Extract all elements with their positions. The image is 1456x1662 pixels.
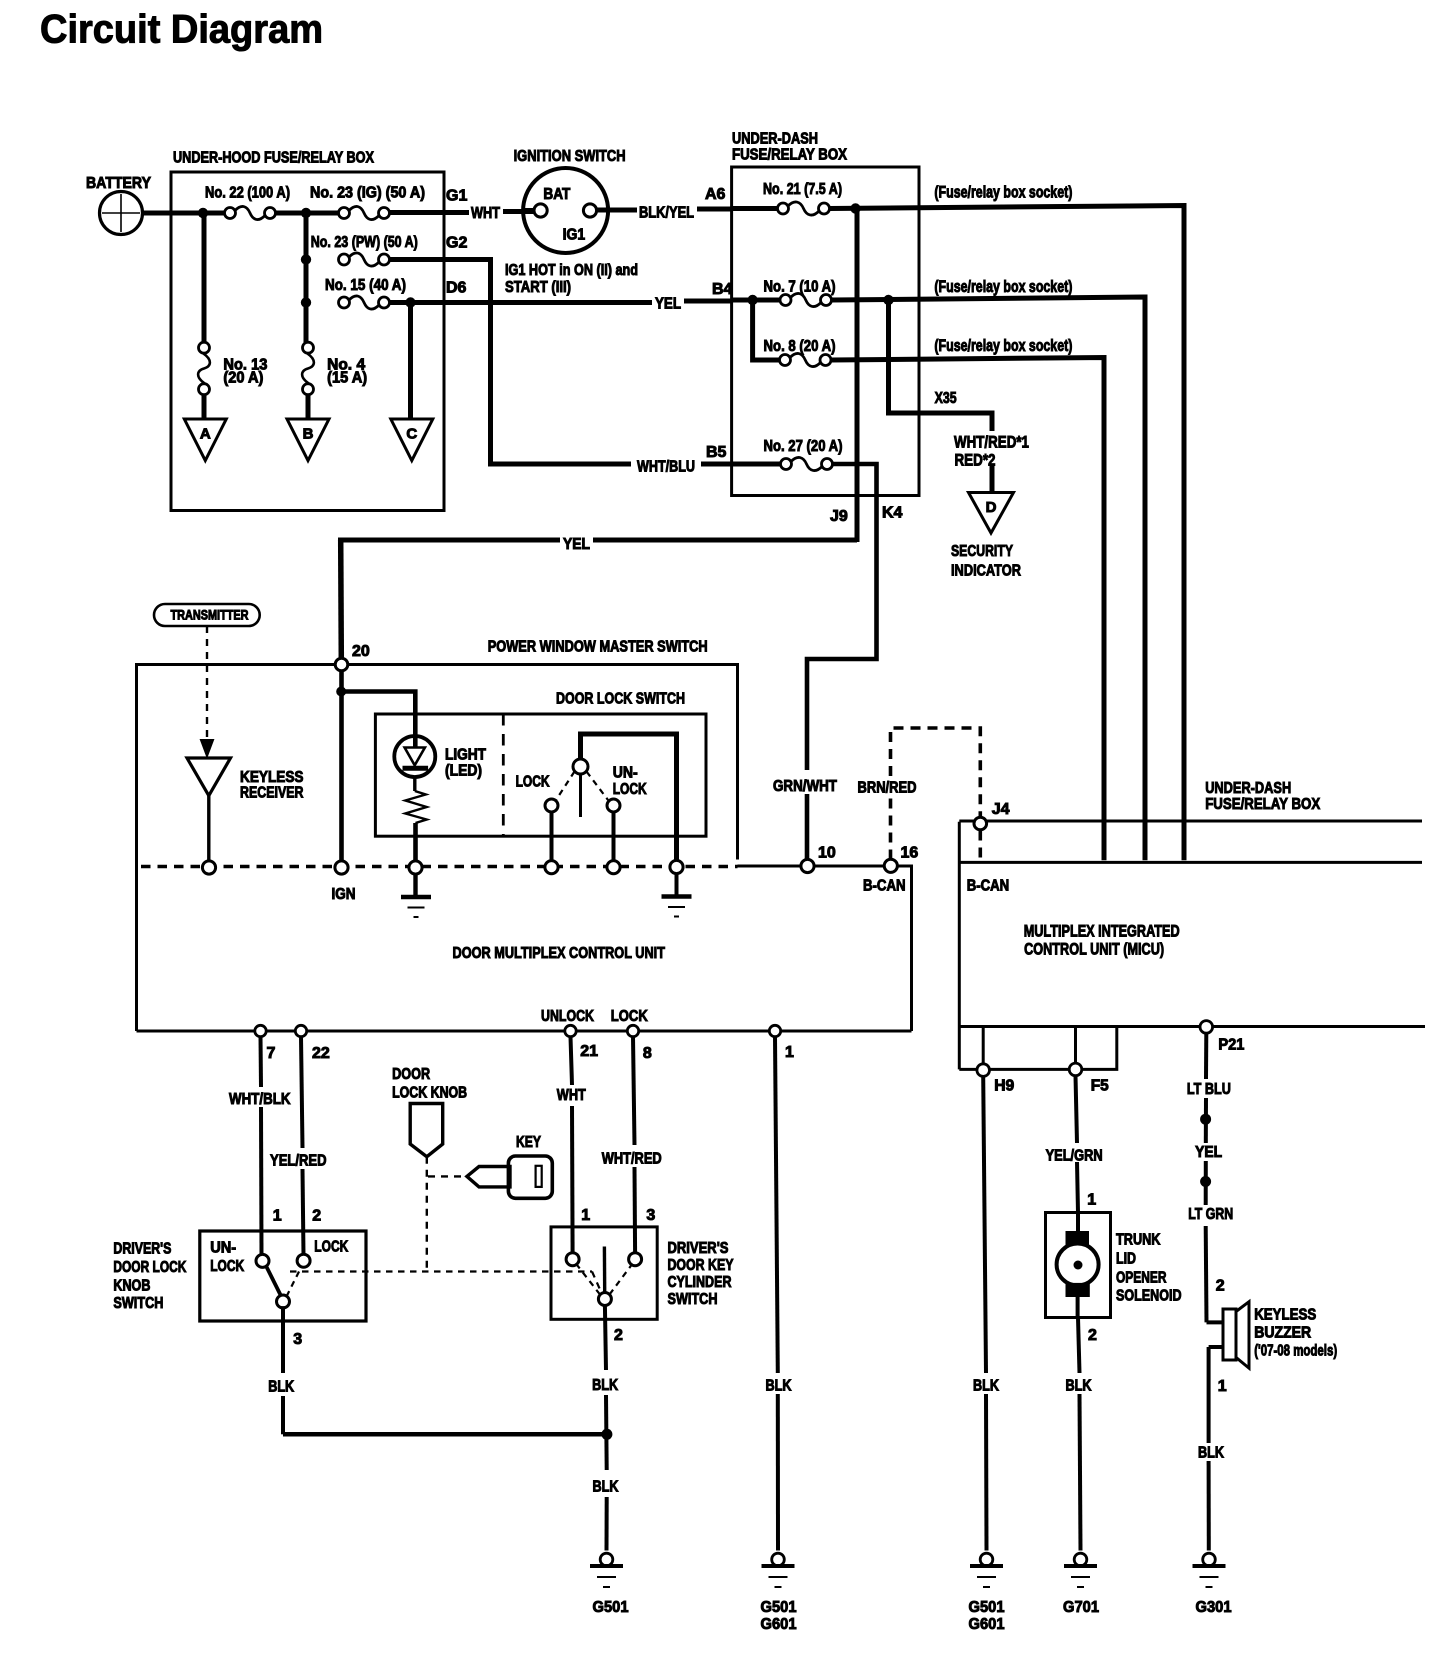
multiplex integrated control unit box: [959, 820, 1422, 823]
svg-text:2: 2: [1216, 1278, 1225, 1295]
svg-text:Circuit Diagram: Circuit Diagram: [40, 8, 323, 52]
trunk lid opener solenoid box: [1046, 1213, 1111, 1318]
svg-text:KNOB: KNOB: [113, 1278, 150, 1295]
terminal bus solid segment and right edge: [738, 866, 912, 1031]
svg-text:LOCK: LOCK: [611, 1008, 648, 1025]
ground G701: [1074, 1553, 1087, 1566]
light LED box: [375, 714, 706, 836]
svg-text:8: 8: [643, 1045, 652, 1062]
svg-text:BLK: BLK: [1066, 1378, 1093, 1395]
svg-text:GRN/WHT: GRN/WHT: [773, 778, 837, 795]
svg-text:YEL: YEL: [655, 296, 681, 313]
door lock switch arm: [579, 775, 582, 818]
node LED branch junction: [336, 687, 346, 697]
svg-text:YEL/RED: YEL/RED: [270, 1153, 327, 1170]
svg-text:No. 15 (40 A): No. 15 (40 A): [325, 277, 406, 294]
pin F5: [1069, 1063, 1082, 1076]
driver's door lock knob switch box: [200, 1231, 366, 1321]
pin IGN terminal: [335, 861, 348, 874]
svg-text:(20 A): (20 A): [223, 370, 263, 387]
under-hood fuse/relay box: [171, 172, 444, 511]
wire WHT from terminal 21: [571, 1037, 573, 1085]
svg-text:BLK/YEL: BLK/YEL: [639, 205, 694, 222]
wire B4 junction down to fuse No.8: [753, 300, 780, 360]
svg-text:LIGHT: LIGHT: [445, 747, 486, 764]
fuse No.23 (IG) (50A): [339, 208, 350, 219]
ground G501 key cylinder: [600, 1553, 613, 1566]
node battery bus junction: [198, 208, 208, 218]
wire B4 row: [732, 298, 780, 303]
svg-text:B-CAN: B-CAN: [967, 878, 1010, 895]
svg-text:BLK: BLK: [592, 1377, 619, 1394]
svg-text:WHT: WHT: [471, 205, 500, 222]
svg-text:B4: B4: [712, 281, 733, 298]
ground G501 G601 middle: [980, 1553, 993, 1566]
pin door lock switch ground terminal: [670, 860, 683, 873]
wire BLK from terminal 1 to ground: [775, 1037, 778, 1373]
node splice YEL: [1200, 1114, 1211, 1125]
wire transmitter dashed link: [206, 626, 208, 739]
node splice LT GRN: [1200, 1176, 1211, 1187]
svg-text:DOOR LOCK: DOOR LOCK: [113, 1259, 187, 1276]
pin LOCK bus terminal: [545, 861, 558, 874]
wire IGN riser: [339, 671, 344, 860]
svg-text:IG1 HOT in ON (II) and: IG1 HOT in ON (II) and: [505, 262, 638, 279]
svg-text:IG1: IG1: [563, 227, 586, 244]
svg-text:DOOR: DOOR: [392, 1066, 430, 1083]
svg-text:7: 7: [267, 1045, 276, 1062]
wire BLK from H9 to ground: [983, 1076, 986, 1373]
connector D: [969, 493, 1014, 534]
wire resistor to ground terminal: [413, 823, 418, 861]
svg-text:B-CAN: B-CAN: [863, 878, 906, 895]
fuse No.8 (20A): [780, 355, 791, 366]
svg-text:IGNITION SWITCH: IGNITION SWITCH: [514, 148, 626, 165]
svg-text:BLK: BLK: [1198, 1444, 1225, 1461]
svg-text:21: 21: [580, 1043, 598, 1060]
svg-text:YEL/GRN: YEL/GRN: [1046, 1148, 1103, 1165]
node A6 junction J9 feed: [850, 203, 860, 213]
svg-text:BUZZER: BUZZER: [1254, 1325, 1311, 1342]
wire fuse/relay box socket 3: [831, 358, 1104, 861]
svg-text:UNDER-HOOD FUSE/RELAY BOX: UNDER-HOOD FUSE/RELAY BOX: [173, 150, 374, 167]
node D6 junction: [301, 297, 311, 307]
wire LOCK contact to terminal: [550, 812, 554, 860]
wire into buzzer: [1207, 1320, 1224, 1324]
connector sub-box H9 F5: [959, 1027, 1117, 1070]
svg-text:CONTROL UNIT (MICU): CONTROL UNIT (MICU): [1024, 941, 1164, 959]
pin terminal 16: [884, 859, 897, 872]
svg-text:(Fuse/relay box socket): (Fuse/relay box socket): [934, 278, 1072, 296]
svg-text:22: 22: [312, 1045, 330, 1062]
svg-text:1: 1: [273, 1208, 282, 1225]
pin terminal 8: [627, 1025, 638, 1036]
fuse No.27 (20A): [781, 459, 792, 470]
pin BAT terminal: [534, 204, 547, 217]
svg-text:K4: K4: [882, 505, 903, 522]
door lock knob: [410, 1104, 443, 1157]
svg-text:DRIVER'S: DRIVER'S: [668, 1240, 729, 1257]
svg-text:UN-: UN-: [210, 1240, 236, 1257]
wire UN-LOCK contact to terminal: [612, 812, 616, 860]
wire ignition to under-dash A6, label BLK/YEL: [597, 208, 637, 213]
fuse No.22 (100A): [225, 208, 236, 219]
fuse No.4 (15A): [306, 340, 308, 345]
svg-text:G501: G501: [761, 1599, 797, 1616]
wire G1 out to ignition switch, label WHT: [390, 210, 470, 215]
connector B: [287, 419, 329, 461]
svg-text:LID: LID: [1116, 1251, 1136, 1268]
wire vertical bus to lower fuses: [304, 213, 309, 348]
svg-text:No. 21 (7.5 A): No. 21 (7.5 A): [763, 181, 842, 198]
svg-text:MULTIPLEX INTEGRATED: MULTIPLEX INTEGRATED: [1024, 923, 1180, 941]
svg-text:1: 1: [1087, 1192, 1096, 1209]
wire fuse/relay box socket 1: [830, 206, 1185, 861]
wire BLK horizontal to junction: [283, 1432, 605, 1437]
svg-text:BATTERY: BATTERY: [86, 175, 151, 192]
node BLK junction: [601, 1429, 612, 1440]
svg-text:10: 10: [818, 845, 836, 862]
svg-text:IGN: IGN: [332, 886, 356, 903]
svg-text:3: 3: [293, 1331, 302, 1348]
svg-text:G601: G601: [969, 1616, 1005, 1633]
svg-text:G701: G701: [1063, 1599, 1099, 1616]
connector C: [391, 419, 433, 461]
svg-text:D: D: [986, 499, 997, 516]
keyless buzzer: [1223, 1309, 1236, 1360]
wire LED branch: [341, 692, 415, 748]
svg-text:DOOR LOCK SWITCH: DOOR LOCK SWITCH: [556, 691, 685, 708]
wire J9 riser to YEL bus: [855, 209, 860, 543]
svg-text:LOCK: LOCK: [613, 781, 648, 798]
svg-text:2: 2: [614, 1327, 623, 1344]
node G1 feed junction: [301, 208, 311, 218]
svg-text:No. 23 (IG) (50 A): No. 23 (IG) (50 A): [310, 185, 425, 202]
wire YEL horizontal to terminal 20: [593, 538, 857, 543]
LED ground: [413, 874, 417, 896]
keyless receiver antenna: [187, 758, 231, 796]
wire to connector A: [202, 395, 207, 419]
wire fuse/relay box socket 2: [832, 297, 1146, 860]
svg-text:UNLOCK: UNLOCK: [541, 1008, 594, 1025]
svg-text:2: 2: [1088, 1327, 1097, 1344]
svg-text:('07-08 models): ('07-08 models): [1254, 1343, 1337, 1360]
pin 20 terminal: [335, 658, 348, 671]
svg-text:KEY: KEY: [516, 1134, 542, 1151]
svg-text:G1: G1: [446, 188, 467, 205]
svg-text:A6: A6: [705, 186, 726, 203]
wire fuse22 to junction: [276, 211, 345, 216]
key cylinder arm: [603, 1247, 607, 1293]
pin UN-LOCK contact: [607, 799, 620, 812]
svg-text:J9: J9: [830, 508, 848, 525]
pin key cylinder 3: [629, 1253, 642, 1266]
svg-text:1: 1: [785, 1044, 794, 1061]
pin knob switch 3 common: [277, 1295, 290, 1308]
svg-text:LOCK: LOCK: [210, 1258, 245, 1275]
svg-text:LOCK KNOB: LOCK KNOB: [392, 1085, 467, 1102]
pin J4: [974, 817, 987, 830]
node G2 junction: [301, 254, 311, 264]
svg-text:1: 1: [1218, 1378, 1227, 1395]
svg-text:B: B: [303, 426, 314, 443]
pin LOCK contact: [545, 799, 558, 812]
door multiplex control unit bottom edge: [137, 1030, 912, 1033]
svg-text:RED*2: RED*2: [955, 451, 996, 470]
received-signal arrowhead: [201, 740, 213, 756]
svg-text:CYLINDER: CYLINDER: [668, 1274, 732, 1291]
svg-text:DRIVER'S: DRIVER'S: [113, 1241, 171, 1258]
pin key cylinder 1: [566, 1253, 579, 1266]
svg-text:KEYLESS: KEYLESS: [240, 769, 304, 786]
driver's door key cylinder switch box: [551, 1227, 657, 1319]
fuse No.15 (40A): [339, 297, 350, 308]
svg-text:BRN/RED: BRN/RED: [858, 780, 917, 797]
pin terminal 1: [769, 1025, 780, 1036]
svg-text:No. 27 (20 A): No. 27 (20 A): [764, 438, 843, 455]
svg-text:D6: D6: [446, 280, 467, 297]
wire knob switch 3 to BLK junction: [281, 1306, 285, 1373]
pin terminal 10: [801, 859, 814, 872]
wire G2 out and down to WHT/BLU row: [390, 260, 632, 465]
wire LT BLU / YEL / LT GRN riser from P21: [1204, 1033, 1208, 1079]
svg-text:BLK: BLK: [973, 1378, 1000, 1395]
LED lamp: [394, 736, 435, 777]
wire YEL/GRN from F5 to solenoid: [1076, 1076, 1078, 1143]
door lock switch dashed throws: [556, 772, 575, 801]
svg-text:G501: G501: [593, 1599, 629, 1616]
knob switch arm: [266, 1266, 281, 1297]
key: [467, 1167, 510, 1187]
svg-text:WHT: WHT: [557, 1087, 586, 1104]
svg-text:No. 7 (10 A): No. 7 (10 A): [764, 279, 836, 296]
svg-text:WHT/BLK: WHT/BLK: [229, 1091, 291, 1108]
wire K4 riser: [807, 464, 877, 770]
wire B5 row WHT/BLU: [732, 462, 781, 467]
wire key cylinder 2 to ground: [605, 1305, 606, 1370]
knob switch dashed throw: [287, 1267, 302, 1297]
svg-text:UNDER-DASH: UNDER-DASH: [1205, 780, 1291, 797]
svg-text:(Fuse/relay box socket): (Fuse/relay box socket): [934, 337, 1072, 355]
pin LED ground terminal: [409, 861, 422, 874]
wire buzzer to ground G301: [1209, 1345, 1223, 1349]
svg-text:BLK: BLK: [766, 1378, 793, 1395]
ground G501 G601 left: [772, 1553, 785, 1566]
svg-text:(15 A): (15 A): [327, 370, 367, 387]
svg-text:LT BLU: LT BLU: [1187, 1081, 1231, 1098]
fuse No.23 (PW) (50A): [339, 254, 350, 265]
wire to connector C: [408, 303, 413, 420]
svg-text:FUSE/RELAY BOX: FUSE/RELAY BOX: [1205, 796, 1320, 813]
door lock switch common bar: [581, 734, 677, 860]
pin IG1 terminal: [583, 204, 596, 217]
svg-text:F5: F5: [1091, 1077, 1109, 1094]
pin terminal 7: [255, 1025, 266, 1036]
pin P21: [1200, 1021, 1213, 1034]
svg-text:POWER WINDOW MASTER SWITCH: POWER WINDOW MASTER SWITCH: [488, 639, 708, 656]
svg-text:OPENER: OPENER: [1116, 1270, 1167, 1287]
wire H9 stub: [982, 1027, 985, 1064]
wire WHT/BLK from terminal 7: [259, 1037, 264, 1087]
svg-text:X35: X35: [935, 390, 957, 407]
svg-text:3: 3: [646, 1207, 655, 1224]
svg-text:INDICATOR: INDICATOR: [951, 563, 1021, 580]
svg-text:G601: G601: [761, 1616, 797, 1633]
svg-text:YEL: YEL: [1195, 1144, 1222, 1161]
pin UN-LOCK bus terminal: [607, 861, 620, 874]
wire BRN/RED dashed: [889, 797, 893, 860]
wire F5 stub: [1074, 1027, 1077, 1063]
wire YEL/RED from terminal 22: [301, 1037, 303, 1148]
resistor: [413, 777, 416, 791]
svg-text:UNDER-DASH: UNDER-DASH: [732, 131, 818, 148]
svg-text:C: C: [406, 426, 417, 443]
svg-text:No. 8 (20 A): No. 8 (20 A): [764, 338, 836, 355]
svg-text:No. 23 (PW) (50 A): No. 23 (PW) (50 A): [311, 234, 418, 251]
svg-text:FUSE/RELAY BOX: FUSE/RELAY BOX: [732, 147, 847, 164]
svg-text:BLK: BLK: [268, 1379, 295, 1396]
wire key dashed link: [428, 1175, 463, 1177]
svg-text:G2: G2: [446, 235, 467, 252]
svg-text:RECEIVER: RECEIVER: [240, 785, 304, 802]
svg-text:WHT/BLU: WHT/BLU: [637, 459, 695, 476]
svg-text:UN-: UN-: [613, 765, 638, 782]
battery: [100, 192, 143, 235]
fuse No.13 (20A): [202, 213, 207, 342]
wire BLK solenoid to ground: [1078, 1318, 1080, 1374]
transmitter: [154, 604, 260, 626]
door lock switch divider dashed: [502, 714, 505, 837]
ground G301: [1203, 1553, 1216, 1566]
svg-text:1: 1: [581, 1207, 590, 1224]
svg-text:No. 22 (100 A): No. 22 (100 A): [205, 185, 290, 202]
svg-text:16: 16: [901, 845, 919, 862]
pin knob switch 1: [256, 1254, 269, 1267]
node triangle C junction: [405, 297, 415, 307]
wire to connector B: [306, 395, 311, 419]
svg-text:LT GRN: LT GRN: [1188, 1206, 1233, 1223]
svg-text:SECURITY: SECURITY: [951, 543, 1013, 560]
svg-text:H9: H9: [994, 1077, 1014, 1094]
pin key cylinder 2 common: [598, 1293, 611, 1306]
svg-text:2: 2: [312, 1208, 321, 1225]
svg-text:LOCK: LOCK: [314, 1239, 349, 1256]
wire D6 out to under-dash B4, label YEL: [390, 300, 653, 305]
svg-text:BLK: BLK: [593, 1479, 620, 1496]
door lock switch ground: [675, 874, 679, 896]
door lock switch common contact: [573, 759, 588, 774]
svg-text:SOLENOID: SOLENOID: [1116, 1288, 1182, 1305]
node K4/X35 feed junction: [883, 295, 893, 305]
svg-text:G501: G501: [969, 1599, 1005, 1616]
pin keyless receiver terminal: [202, 861, 215, 874]
svg-text:DOOR MULTIPLEX CONTROL UNIT: DOOR MULTIPLEX CONTROL UNIT: [453, 945, 666, 962]
wire knob dashed link: [426, 1157, 428, 1272]
pin terminal 22: [295, 1025, 306, 1036]
svg-text:YEL: YEL: [563, 536, 590, 553]
svg-text:TRANSMITTER: TRANSMITTER: [171, 608, 249, 623]
pin terminal 21: [565, 1025, 576, 1036]
connector A: [184, 419, 226, 461]
node B4 junction: [747, 295, 757, 305]
fuse No.21 (7.5A): [778, 203, 789, 214]
svg-text:20: 20: [352, 643, 370, 660]
svg-text:WHT/RED*1: WHT/RED*1: [954, 433, 1029, 452]
wire A6 row: [732, 206, 778, 211]
wire battery to under-hood box: [143, 211, 231, 216]
svg-text:G301: G301: [1196, 1599, 1232, 1616]
svg-text:B5: B5: [706, 444, 727, 461]
wire X35 branch to security indicator: [889, 300, 993, 431]
svg-text:SWITCH: SWITCH: [668, 1291, 718, 1308]
svg-text:P21: P21: [1218, 1037, 1244, 1054]
wire knob-key to switches dashed link: [290, 1270, 592, 1272]
pin knob switch 2: [297, 1254, 310, 1267]
svg-text:WHT/RED: WHT/RED: [602, 1151, 662, 1168]
svg-text:SWITCH: SWITCH: [113, 1295, 163, 1312]
terminal bus dashed: [141, 865, 738, 868]
fuse No.7 (10A): [780, 295, 791, 306]
svg-text:BAT: BAT: [543, 186, 570, 203]
under-dash fuse/relay box: [732, 167, 919, 496]
svg-text:A: A: [200, 426, 211, 443]
pin H9: [977, 1064, 990, 1077]
svg-text:KEYLESS: KEYLESS: [1254, 1307, 1316, 1324]
svg-text:DOOR KEY: DOOR KEY: [668, 1257, 735, 1274]
svg-text:(Fuse/relay box socket): (Fuse/relay box socket): [934, 184, 1072, 202]
wire WHT/RED from terminal 8: [633, 1037, 635, 1145]
svg-text:START (III): START (III): [505, 279, 571, 296]
svg-text:TRUNK: TRUNK: [1116, 1232, 1161, 1249]
svg-text:LOCK: LOCK: [516, 774, 551, 791]
ignition switch: [523, 168, 608, 253]
key cylinder dashed throws: [577, 1265, 600, 1295]
power window master switch box: [137, 665, 738, 867]
svg-text:(LED): (LED): [445, 763, 482, 780]
svg-text:J4: J4: [992, 801, 1010, 818]
